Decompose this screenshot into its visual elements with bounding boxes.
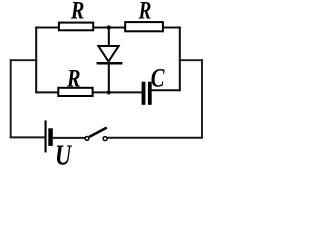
node B bottom junction dot	[107, 90, 111, 94]
wire right branch	[179, 59, 203, 61]
wire left inner rail	[35, 27, 37, 94]
diode D1 cathode bar	[97, 62, 123, 65]
capacitor C right plate	[148, 82, 152, 105]
svg-text:R: R	[70, 0, 84, 24]
resistor R1 box	[59, 23, 93, 31]
wire bottom	[10, 136, 45, 138]
battery U label	[55, 139, 73, 171]
switch S left contact circle	[85, 137, 89, 141]
resistor R1 label	[70, 0, 84, 24]
diode D1 cathode stub	[108, 63, 110, 92]
resistor R3 label	[66, 64, 80, 91]
battery U short plate	[48, 128, 53, 146]
wire switch to right rail	[108, 137, 203, 139]
diode D1 triangle	[98, 46, 118, 62]
battery U long plate	[45, 120, 47, 152]
wire right inner rail	[179, 27, 181, 92]
svg-text:R: R	[66, 64, 80, 91]
wire battery to switch	[53, 137, 85, 139]
wire left branch	[10, 59, 37, 61]
node A top junction dot	[107, 25, 111, 29]
wire right outer rail	[201, 59, 203, 138]
resistor R3 box	[58, 88, 92, 96]
svg-text:C: C	[151, 64, 165, 93]
diode D1 anode stub	[108, 28, 110, 47]
svg-text:U: U	[55, 139, 73, 169]
wire row2 left	[35, 91, 142, 93]
capacitor C label	[151, 64, 165, 93]
switch S right contact circle	[103, 137, 107, 141]
svg-text:R: R	[138, 0, 152, 24]
capacitor C left plate	[142, 82, 146, 105]
wire top row	[35, 27, 180, 29]
switch S blade	[89, 128, 107, 137]
resistor R2 box	[125, 22, 163, 31]
wire row2 right	[151, 89, 181, 91]
wire left outer rail	[10, 59, 12, 138]
resistor R2 label	[138, 0, 152, 24]
